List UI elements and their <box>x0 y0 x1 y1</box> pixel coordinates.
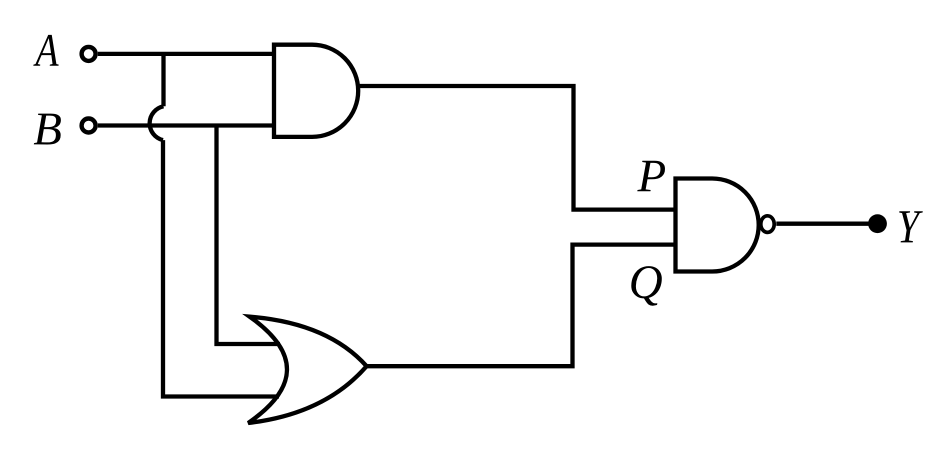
input terminal B <box>82 119 96 133</box>
wire AND output to node P <box>357 86 675 210</box>
wire A branch to OR bottom input <box>163 140 279 396</box>
label B <box>34 114 61 145</box>
label Q (node Q) <box>631 266 662 306</box>
wire NAND output to Y <box>776 222 870 226</box>
crossover hop (A branch jumps over wire B) <box>150 106 164 140</box>
NAND inversion bubble <box>761 216 774 233</box>
wire A branch vertical (junction at x=163.5 on wire A) <box>161 54 165 106</box>
wire OR output to node Q <box>367 245 675 367</box>
wire A horizontal <box>98 52 276 56</box>
OR gate <box>248 317 366 423</box>
NAND gate body <box>676 179 759 272</box>
label Y <box>899 211 923 242</box>
label A <box>33 35 58 66</box>
input terminal A <box>82 47 96 61</box>
output node dot Y <box>868 214 887 233</box>
AND gate <box>274 45 358 137</box>
wire B horizontal <box>98 123 276 127</box>
wire B branch vertical to OR top input (junction at x=216.5 on wire B) <box>217 126 281 345</box>
label P (node P) <box>637 161 665 191</box>
